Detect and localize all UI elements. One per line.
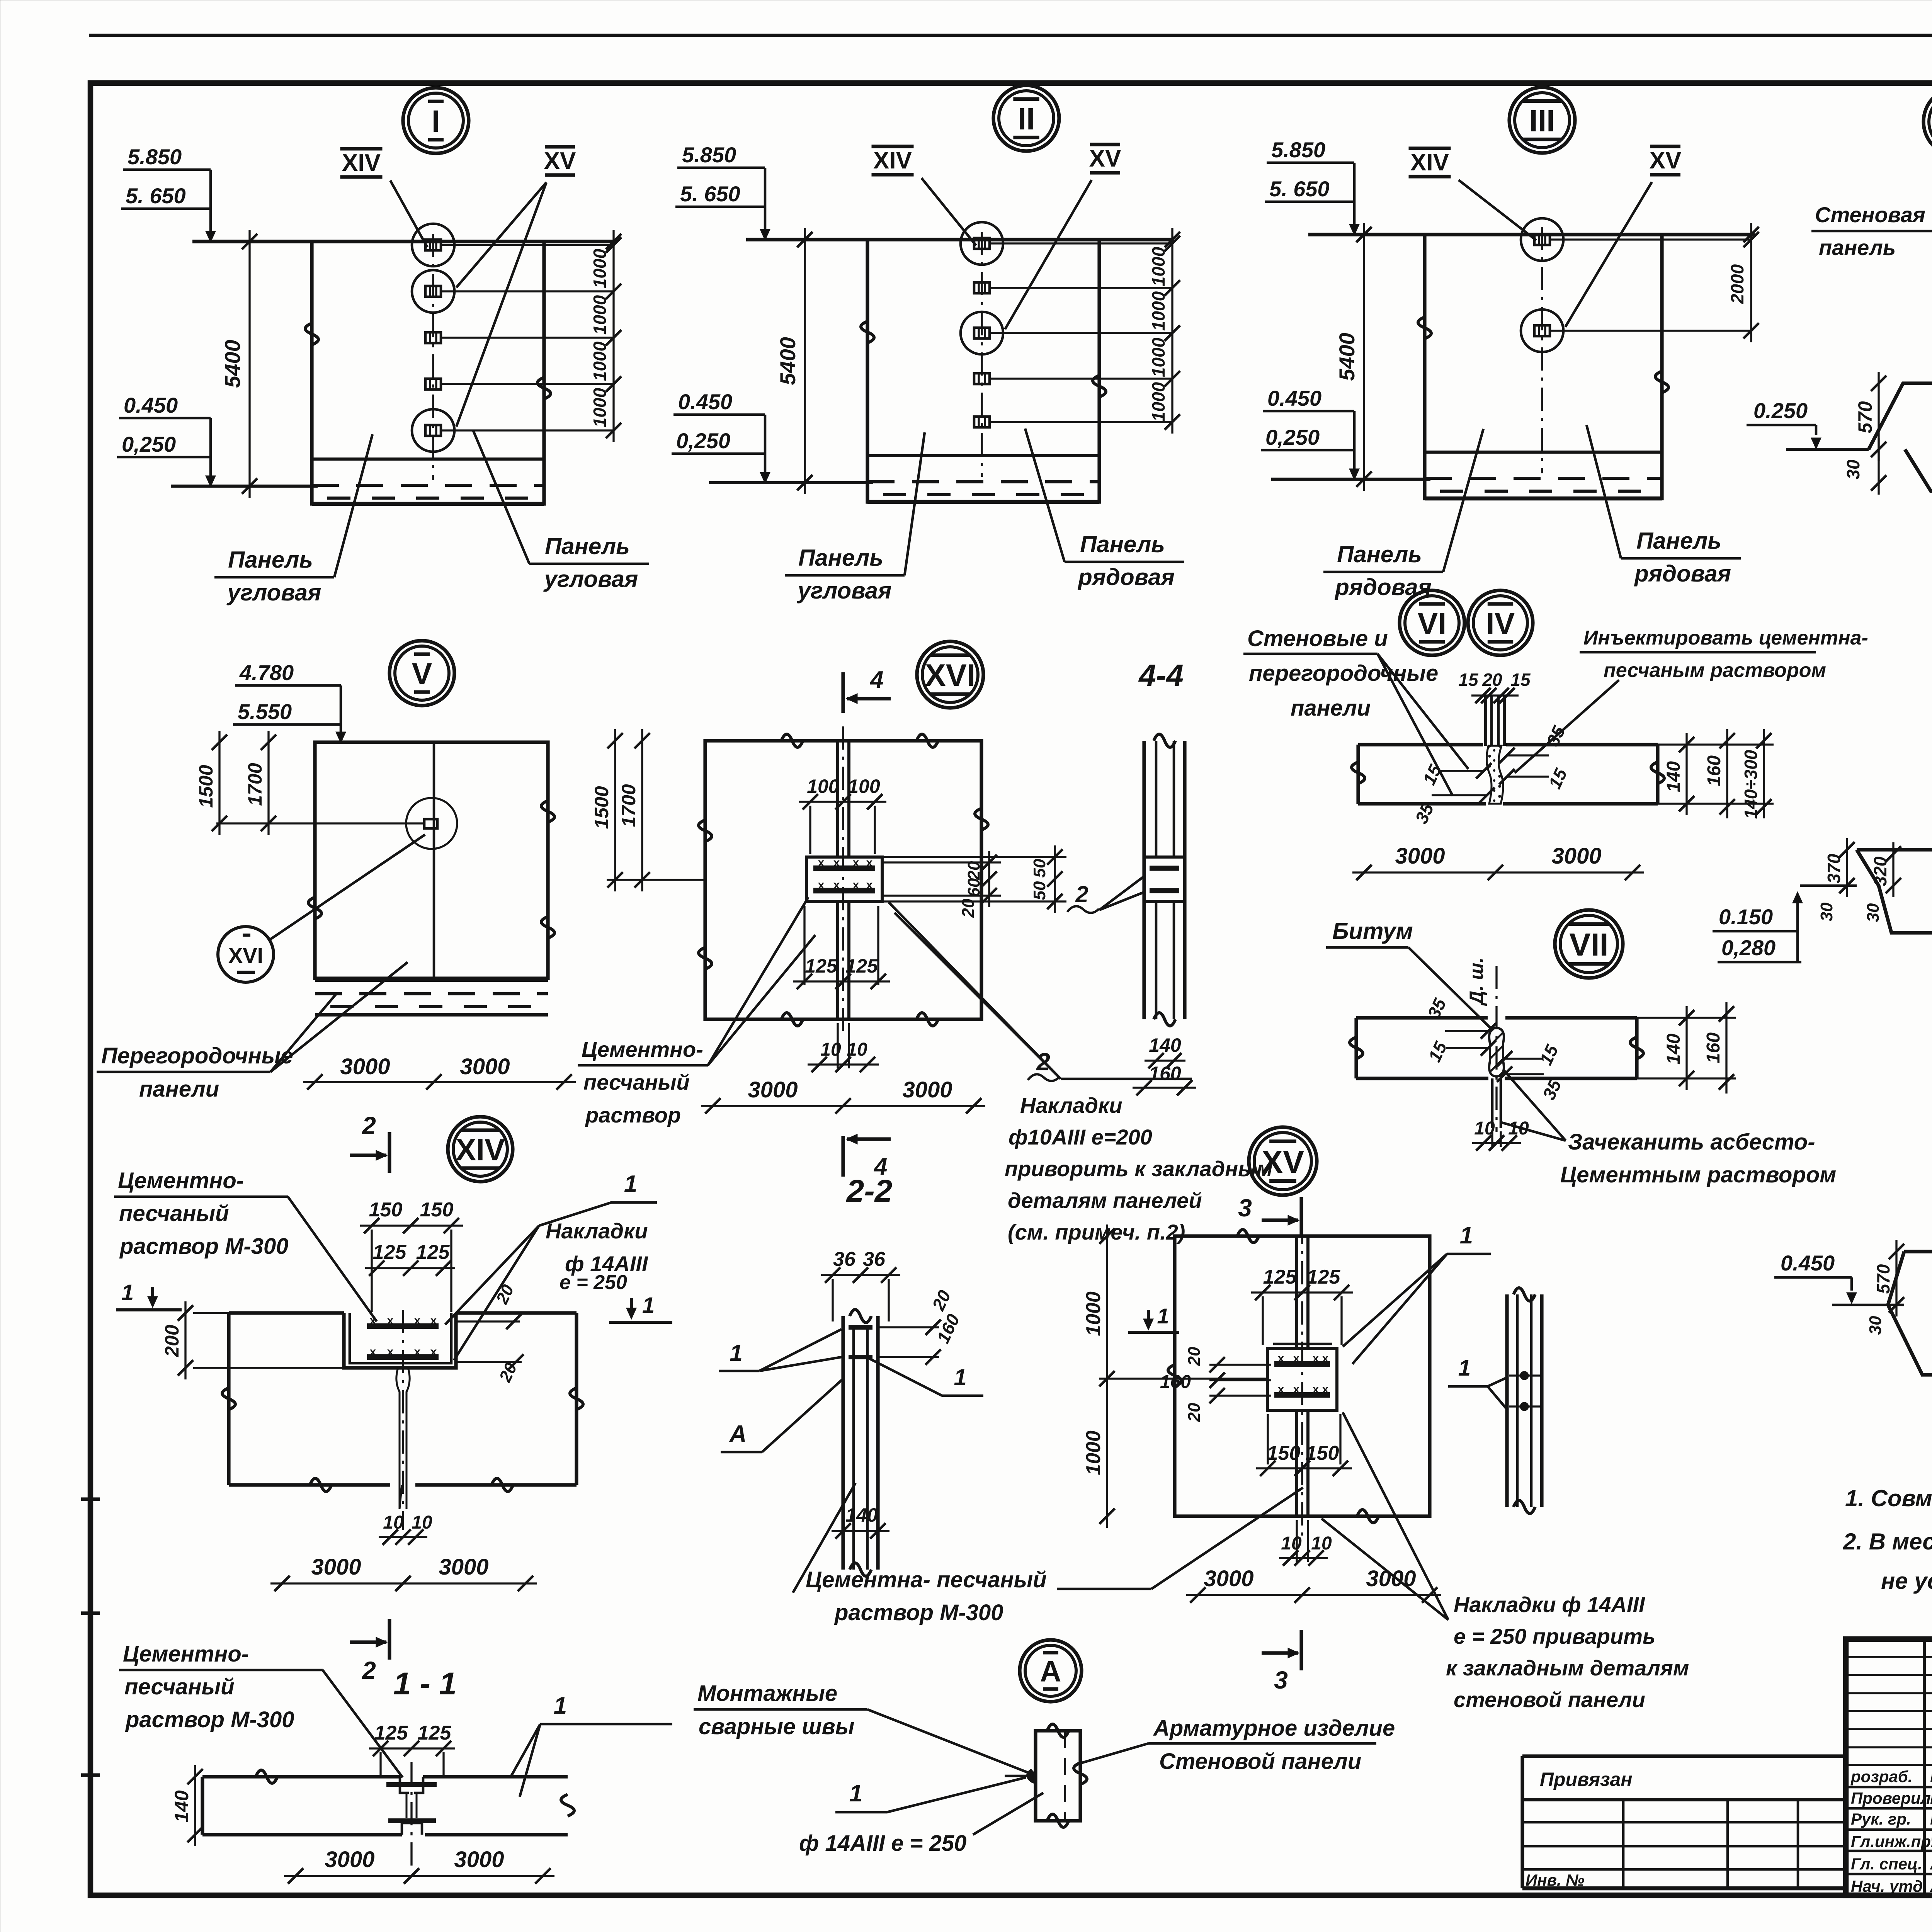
- section 1-1 wall strip: [202, 1775, 400, 1778]
- svg-text:Нач. утд.: Нач. утд.: [1851, 1877, 1927, 1895]
- node VI/IV wall thickness dims 140 160 140-300: [1685, 733, 1687, 815]
- svg-text:(см. примеч. п.2): (см. примеч. п.2): [1008, 1220, 1185, 1244]
- svg-text:30: 30: [1843, 459, 1863, 480]
- svg-text:песчаный: песчаный: [583, 1070, 690, 1094]
- svg-text:150: 150: [1267, 1442, 1301, 1464]
- node XVI dims 20 60 20 right: [882, 861, 1001, 863]
- svg-text:50: 50: [1030, 859, 1049, 878]
- svg-text:5400: 5400: [1335, 333, 1359, 381]
- svg-text:370: 370: [1824, 854, 1844, 883]
- svg-text:II: II: [1018, 102, 1035, 136]
- node II foundation: [867, 454, 1099, 457]
- svg-text:1: 1: [954, 1364, 966, 1390]
- svg-text:рядовая: рядовая: [1634, 561, 1731, 587]
- svg-text:песчаный: песчаный: [124, 1674, 235, 1699]
- node VII wall strips: [1356, 1016, 1488, 1019]
- svg-text:4-4: 4-4: [1138, 658, 1184, 692]
- node XVI dim 10 10: [808, 1063, 879, 1065]
- node I foundation: [312, 457, 544, 461]
- node A wall piece: [1036, 1731, 1080, 1821]
- svg-text:Проверил: Проверил: [1851, 1789, 1931, 1807]
- node VI/IV weld dims 35 15 / 15 35: [1507, 754, 1549, 756]
- svg-text:Накладки: Накладки: [546, 1219, 648, 1243]
- svg-text:Андрианов: Андрианов: [1930, 1853, 1932, 1873]
- svg-text:XVI: XVI: [925, 658, 976, 693]
- node A detail circle: [1020, 1640, 1082, 1702]
- node V bolt: [424, 819, 437, 828]
- node I dim 5400: [248, 230, 250, 498]
- svg-text:5. 650: 5. 650: [1269, 177, 1330, 201]
- node XIV joint cavity with plates: [344, 1313, 456, 1368]
- svg-text:20: 20: [1185, 1347, 1204, 1366]
- svg-text:x: x: [853, 856, 859, 869]
- svg-text:Панель: Панель: [545, 533, 630, 559]
- svg-text:3000: 3000: [439, 1554, 488, 1580]
- svg-text:15: 15: [1458, 670, 1479, 690]
- node II panel outline: [867, 240, 1099, 502]
- node III joint bolts: [1534, 234, 1550, 245]
- left frame fold marks: [81, 1497, 100, 1501]
- node XIV joint below cavity: [396, 1368, 402, 1509]
- node XVI joint plate detail: [806, 857, 882, 901]
- svg-text:XVI: XVI: [228, 943, 263, 968]
- node XIV dim 200: [184, 1301, 186, 1379]
- aux table Привязан: [1522, 1754, 1846, 1758]
- svg-text:1000: 1000: [590, 248, 610, 288]
- section 2-2 joint plates: [852, 1327, 855, 1476]
- svg-text:Гл. спец.: Гл. спец.: [1851, 1855, 1922, 1873]
- svg-text:1: 1: [121, 1280, 134, 1305]
- svg-text:Панель: Панель: [228, 547, 313, 573]
- node I right dimension chain: [612, 230, 614, 442]
- node X dims 370 30 320 30: [1846, 838, 1848, 897]
- svg-text:0.450: 0.450: [124, 393, 178, 417]
- svg-text:150: 150: [420, 1199, 454, 1221]
- node II bolt detail circles: [961, 222, 1003, 265]
- svg-text:Стеновая: Стеновая: [1815, 202, 1925, 227]
- node XIV section mark 2 top: [388, 1132, 391, 1173]
- node XIV detail circle: [448, 1117, 513, 1182]
- svg-text:3: 3: [1274, 1666, 1288, 1694]
- sheet outer top edge line: [89, 34, 1932, 37]
- svg-text:10: 10: [412, 1512, 432, 1533]
- svg-text:XIV: XIV: [342, 150, 381, 176]
- svg-text:15: 15: [1510, 670, 1531, 690]
- svg-text:А: А: [1040, 1655, 1061, 1688]
- section 2-2 strip outline: [841, 1316, 845, 1476]
- svg-text:x: x: [1293, 1352, 1300, 1365]
- svg-text:2000: 2000: [1727, 264, 1747, 304]
- node XVI dims 1500 1700 left: [614, 729, 616, 891]
- svg-text:0,280: 0,280: [1721, 935, 1776, 960]
- node XIV dims 150 150: [360, 1225, 463, 1226]
- svg-text:x: x: [387, 1345, 394, 1358]
- section 1-1 dims 3000 3000: [284, 1875, 554, 1877]
- node III dim 5400: [1363, 223, 1365, 491]
- svg-text:x: x: [853, 879, 859, 891]
- svg-text:1. Совместно с данным см.: 1. Совместно с данным см. л.л. КЖ - 32÷3…: [1845, 1485, 1932, 1511]
- svg-text:Зачеканить асбесто-: Зачеканить асбесто-: [1568, 1129, 1815, 1155]
- title block outer border: [1846, 1639, 1932, 1895]
- node V dims 3000 3000: [303, 1081, 576, 1083]
- svg-text:5.550: 5.550: [238, 699, 292, 724]
- node XV detail circle: [1249, 1127, 1317, 1195]
- node XVI dim 125 125: [793, 980, 890, 982]
- svg-text:20: 20: [1185, 1403, 1204, 1422]
- node IX foundation outline: [1786, 448, 1869, 451]
- svg-text:XIV: XIV: [456, 1132, 505, 1167]
- svg-text:XIV: XIV: [873, 147, 912, 174]
- svg-text:Рук. гр.: Рук. гр.: [1851, 1810, 1911, 1828]
- node III detail circle: [1509, 87, 1575, 153]
- section 3-3 bolt dots: [1521, 1372, 1528, 1379]
- svg-text:0,250: 0,250: [1265, 425, 1320, 449]
- svg-text:125: 125: [1307, 1266, 1341, 1288]
- svg-text:раствор: раствор: [585, 1103, 681, 1127]
- svg-text:Панель: Панель: [798, 545, 883, 571]
- svg-text:0,250: 0,250: [676, 429, 730, 453]
- node II panel top line: [746, 238, 1174, 241]
- svg-text:2: 2: [362, 1656, 376, 1684]
- svg-text:1: 1: [849, 1780, 862, 1807]
- svg-text:Накладки ф 14АIII: Накладки ф 14АIII: [1454, 1592, 1645, 1617]
- section 2-2 dims 36 36: [821, 1274, 900, 1276]
- svg-text:к закладным деталям: к закладным деталям: [1446, 1656, 1689, 1680]
- svg-text:36: 36: [863, 1248, 886, 1270]
- svg-text:Перегородочные: Перегородочные: [101, 1043, 293, 1068]
- node III panel joint centerline: [1541, 227, 1543, 473]
- svg-text:140: 140: [1663, 1034, 1684, 1065]
- svg-text:Накладки: Накладки: [1020, 1093, 1122, 1117]
- node VI/IV dims 15 20 15: [1471, 694, 1519, 696]
- svg-text:XV: XV: [1089, 145, 1121, 172]
- svg-text:140÷300: 140÷300: [1741, 750, 1761, 819]
- svg-text:XV: XV: [1262, 1144, 1304, 1180]
- svg-text:160: 160: [1703, 1032, 1724, 1063]
- svg-text:36: 36: [833, 1248, 856, 1270]
- node VII weld dims 35 15 / 15 35: [1445, 1030, 1488, 1032]
- node XV section mark 3 bottom: [1299, 1630, 1303, 1670]
- svg-text:панели: панели: [139, 1077, 219, 1102]
- node V panel plan outline: [315, 742, 548, 978]
- svg-text:140: 140: [1149, 1034, 1181, 1056]
- svg-text:4.780: 4.780: [239, 660, 294, 685]
- svg-text:140: 140: [845, 1504, 878, 1526]
- svg-text:x: x: [430, 1345, 437, 1358]
- node XIV dim 10 10: [379, 1536, 427, 1538]
- svg-text:x: x: [818, 879, 825, 891]
- svg-text:III: III: [1529, 104, 1555, 138]
- node I joint bolts: [425, 240, 441, 250]
- svg-text:0,250: 0,250: [122, 432, 176, 456]
- svg-text:10: 10: [1311, 1533, 1332, 1554]
- node XVI detail circle: [917, 641, 983, 708]
- section 1-1 dim 140: [194, 1765, 196, 1846]
- svg-text:перегородочные: перегородочные: [1249, 661, 1438, 686]
- svg-text:5.850: 5.850: [682, 143, 736, 167]
- svg-text:Панель: Панель: [1080, 531, 1165, 557]
- node V ref XVI bubble: [218, 927, 274, 982]
- svg-text:угловая: угловая: [797, 578, 892, 604]
- node A weld dot: [1027, 1770, 1036, 1783]
- node VI/IV joint cavity: [1486, 746, 1503, 804]
- svg-text:1: 1: [1157, 1304, 1169, 1328]
- svg-text:Цветкова: Цветкова: [1930, 1766, 1932, 1786]
- svg-text:Цементно-: Цементно-: [118, 1168, 244, 1193]
- svg-text:1700: 1700: [618, 784, 639, 827]
- svg-text:3000: 3000: [311, 1554, 361, 1580]
- node XIV section mark 2 bottom: [388, 1619, 391, 1660]
- node VI/IV perpendicular wall above joint: [1484, 696, 1487, 746]
- svg-text:125: 125: [845, 955, 878, 977]
- svg-text:2-2: 2-2: [846, 1173, 893, 1209]
- node VI/IV dims 3000 3000: [1352, 871, 1644, 873]
- svg-text:60: 60: [964, 878, 983, 897]
- svg-text:1: 1: [1458, 1355, 1471, 1381]
- svg-text:5. 650: 5. 650: [126, 184, 186, 208]
- svg-text:Полякова: Полякова: [1930, 1787, 1932, 1808]
- svg-text:x: x: [387, 1314, 394, 1327]
- node VII bitumen plug: [1489, 1028, 1504, 1077]
- section 4-4 joint plates: [1144, 857, 1185, 901]
- svg-text:4: 4: [869, 667, 883, 693]
- svg-text:1000: 1000: [1082, 1291, 1105, 1336]
- svg-text:1: 1: [642, 1293, 655, 1318]
- svg-text:x: x: [1313, 1352, 1319, 1365]
- svg-text:100: 100: [807, 776, 839, 797]
- svg-text:0.450: 0.450: [1781, 1251, 1835, 1275]
- node X foundation outline: [1857, 848, 1932, 851]
- node VII wall thickness dims 140 160: [1685, 1006, 1687, 1090]
- svg-text:140: 140: [1663, 761, 1684, 792]
- svg-text:панели: панели: [1291, 696, 1371, 721]
- svg-text:1000: 1000: [590, 341, 610, 381]
- svg-text:125: 125: [374, 1722, 408, 1744]
- svg-text:1000: 1000: [1082, 1430, 1105, 1475]
- svg-text:угловая: угловая: [543, 566, 638, 592]
- svg-text:1 - 1: 1 - 1: [393, 1666, 457, 1701]
- svg-text:3000: 3000: [460, 1054, 510, 1079]
- svg-text:320: 320: [1870, 856, 1890, 886]
- svg-text:x: x: [1278, 1383, 1284, 1396]
- svg-text:125: 125: [373, 1241, 407, 1264]
- svg-text:XIV: XIV: [1410, 149, 1449, 176]
- svg-text:Привязан: Привязан: [1540, 1769, 1633, 1790]
- node IX detail circle: [1923, 88, 1932, 156]
- node XVI dims 3000 3000: [701, 1105, 985, 1107]
- svg-text:XV: XV: [1650, 147, 1682, 174]
- section 4-4 dims 140 160: [1145, 1060, 1185, 1061]
- svg-text:125: 125: [805, 955, 838, 977]
- svg-text:1000: 1000: [1148, 247, 1168, 286]
- svg-text:раствор М-300: раствор М-300: [125, 1707, 294, 1732]
- node V panel joint line: [433, 742, 435, 978]
- node III foundation: [1425, 451, 1662, 454]
- node XVI dim 100 100: [799, 801, 886, 803]
- svg-text:3000: 3000: [1395, 844, 1445, 869]
- svg-text:3: 3: [1238, 1194, 1252, 1222]
- svg-text:IV: IV: [1486, 606, 1515, 640]
- svg-text:125: 125: [418, 1722, 452, 1744]
- svg-text:125: 125: [416, 1241, 450, 1264]
- svg-text:не устанавливать (узел XVI: не устанавливать (узел XVI ).: [1881, 1568, 1932, 1594]
- section 4-4 wall strip: [1142, 741, 1146, 1019]
- svg-text:1: 1: [624, 1171, 637, 1197]
- svg-text:5.850: 5.850: [1271, 138, 1325, 162]
- svg-text:10: 10: [383, 1512, 404, 1533]
- svg-text:Цементно-: Цементно-: [123, 1641, 249, 1667]
- svg-text:1000: 1000: [1148, 382, 1168, 422]
- svg-text:приворить к закладным: приворить к закладным: [1005, 1156, 1272, 1181]
- node XIV dims 3000 3000: [270, 1582, 537, 1584]
- section 2-2 dim 140: [832, 1530, 889, 1532]
- svg-text:160: 160: [1160, 1372, 1191, 1392]
- svg-text:1000: 1000: [590, 388, 610, 427]
- title block vertical dividers: [1923, 1639, 1926, 1895]
- svg-text:1: 1: [730, 1340, 742, 1366]
- svg-text:1700: 1700: [244, 763, 266, 806]
- svg-text:Инв. №: Инв. №: [1526, 1871, 1584, 1889]
- node II right dimension chain: [1171, 228, 1173, 434]
- svg-text:e = 250 приварить: e = 250 приварить: [1454, 1624, 1655, 1648]
- svg-text:3000: 3000: [748, 1077, 798, 1102]
- svg-text:160: 160: [1704, 755, 1725, 786]
- svg-text:x: x: [370, 1345, 376, 1358]
- svg-text:0.250: 0.250: [1753, 398, 1808, 423]
- node III panel outline: [1425, 235, 1662, 498]
- node XV dims 150 150: [1256, 1467, 1352, 1469]
- node I lower level line: [171, 485, 318, 488]
- svg-text:200: 200: [161, 1325, 183, 1357]
- svg-text:раствор М-300: раствор М-300: [119, 1234, 288, 1259]
- svg-text:125: 125: [1263, 1266, 1297, 1288]
- title block left grid rows: [1846, 1656, 1932, 1658]
- node XV dims 125 125: [1251, 1291, 1353, 1293]
- svg-text:5.850: 5.850: [128, 145, 182, 169]
- node II detail circle: [993, 85, 1059, 151]
- svg-text:2. В местах дефармационных: 2. В местах дефармационных швов накладки…: [1843, 1529, 1932, 1554]
- svg-text:раствор М-300: раствор М-300: [834, 1600, 1003, 1625]
- node III bolt detail circles: [1521, 218, 1563, 261]
- section 2-2 dims 20 160: [878, 1326, 939, 1328]
- svg-text:угловая: угловая: [226, 580, 321, 605]
- svg-text:x: x: [833, 879, 840, 891]
- node XV dims 3000 3000: [1186, 1594, 1441, 1596]
- svg-text:А: А: [729, 1421, 747, 1447]
- svg-text:x: x: [414, 1314, 421, 1327]
- svg-text:30: 30: [1866, 1316, 1885, 1335]
- svg-text:1000: 1000: [590, 295, 610, 335]
- svg-text:x: x: [866, 879, 873, 891]
- section 2-2 lower strip: [841, 1476, 845, 1570]
- svg-text:5. 650: 5. 650: [680, 182, 740, 206]
- node I panel top line: [192, 240, 617, 243]
- svg-text:1: 1: [554, 1692, 567, 1719]
- svg-text:Инъектировать цементна-: Инъектировать цементна-: [1583, 627, 1868, 649]
- svg-text:стеновой панели: стеновой панели: [1454, 1687, 1645, 1712]
- node I detail circle: [403, 88, 469, 153]
- node VI/IV wall strips: [1358, 743, 1483, 746]
- svg-text:x: x: [414, 1345, 421, 1358]
- svg-text:VII: VII: [1569, 927, 1608, 963]
- svg-text:30: 30: [1864, 903, 1883, 922]
- node VII dim 10 10: [1472, 1142, 1521, 1144]
- section 1-1 joint with plates: [400, 1777, 409, 1793]
- svg-text:3000: 3000: [902, 1077, 952, 1102]
- svg-text:2: 2: [362, 1112, 376, 1139]
- node XVI section mark 4 bottom: [841, 1136, 845, 1177]
- svg-text:песчаный: песчаный: [119, 1201, 229, 1226]
- node XIV dims 20 20 right: [456, 1320, 520, 1322]
- svg-text:x: x: [1313, 1383, 1319, 1396]
- svg-text:160: 160: [1149, 1063, 1181, 1084]
- svg-text:Цементно-: Цементно-: [582, 1037, 703, 1061]
- svg-text:Гарбуз: Гарбуз: [1930, 1808, 1932, 1828]
- node V dim lines 1500 1700: [305, 822, 424, 824]
- section 1-1 centerline: [410, 1762, 412, 1870]
- svg-text:3000: 3000: [325, 1847, 374, 1872]
- node XVI dims 50 50 right: [1054, 845, 1056, 913]
- node I bolt detail circles: [412, 224, 454, 266]
- svg-text:V: V: [412, 656, 432, 690]
- svg-text:Цементна- песчаный: Цементна- песчаный: [806, 1567, 1047, 1592]
- node XVI section mark 4 top: [841, 672, 845, 713]
- svg-text:деталям панелей: деталям панелей: [1008, 1188, 1202, 1213]
- svg-text:1500: 1500: [195, 765, 217, 808]
- node XV section mark 3 top: [1299, 1197, 1303, 1238]
- svg-text:1: 1: [1460, 1222, 1473, 1249]
- node XV panel plan square: [1175, 1236, 1430, 1516]
- svg-text:x: x: [1322, 1352, 1329, 1365]
- node XV dims 1000 1000 left: [1106, 1225, 1108, 1528]
- svg-text:150: 150: [369, 1199, 403, 1221]
- svg-text:0.450: 0.450: [678, 389, 732, 414]
- svg-text:0.150: 0.150: [1719, 905, 1773, 929]
- svg-text:розраб.: розраб.: [1850, 1767, 1912, 1786]
- svg-text:I: I: [432, 104, 440, 138]
- svg-text:x: x: [1293, 1383, 1300, 1396]
- svg-text:x: x: [370, 1314, 376, 1327]
- node III panel top line: [1308, 233, 1755, 236]
- svg-text:1500: 1500: [591, 786, 612, 829]
- svg-text:Монтажные: Монтажные: [697, 1681, 837, 1706]
- node XIV dims 125 125: [365, 1267, 455, 1269]
- node XVI panel plan square: [705, 741, 981, 1019]
- svg-text:Арматурное изделие: Арматурное изделие: [1153, 1716, 1395, 1741]
- svg-text:Д. ш.: Д. ш.: [1466, 957, 1487, 1006]
- svg-text:30: 30: [1817, 902, 1836, 921]
- node III right dimension chain: [1750, 223, 1752, 342]
- svg-text:VI: VI: [1418, 606, 1447, 640]
- node XV dim 10 10: [1279, 1557, 1328, 1559]
- svg-text:10: 10: [1281, 1533, 1302, 1554]
- svg-text:100: 100: [848, 776, 880, 797]
- node V foundation: [315, 979, 548, 982]
- node VII detail circle: [1555, 910, 1623, 978]
- node III lower level line: [1271, 478, 1430, 481]
- svg-text:50: 50: [1030, 881, 1049, 900]
- svg-text:Альтшуллер: Альтшуллер: [1930, 1876, 1932, 1896]
- node I panel joint centerline: [432, 234, 434, 480]
- svg-text:3000: 3000: [454, 1847, 504, 1872]
- svg-text:3000: 3000: [340, 1054, 390, 1079]
- svg-text:20: 20: [964, 861, 983, 880]
- svg-text:0.450: 0.450: [1267, 386, 1321, 410]
- node XIV wall section: [229, 1311, 344, 1315]
- svg-text:x: x: [866, 856, 873, 869]
- svg-text:рядовая: рядовая: [1077, 564, 1175, 590]
- node II dim 5400: [804, 228, 806, 494]
